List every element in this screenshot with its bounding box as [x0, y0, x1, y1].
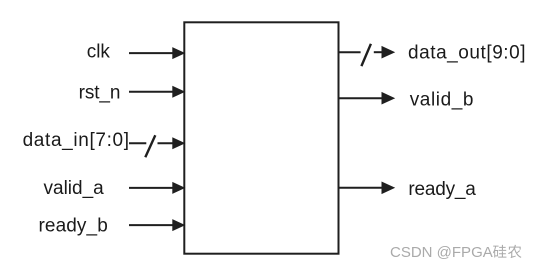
- wire ready_a (output arrow): [339, 182, 396, 195]
- label clk: [87, 41, 111, 62]
- label rst_n: [79, 82, 121, 103]
- module block: [184, 22, 338, 253]
- wire valid_a (input arrow): [129, 182, 185, 194]
- wire data_in bus (input arrow): [129, 137, 185, 149]
- wire rst_n (input arrow): [129, 86, 185, 98]
- svg-text:rst_n: rst_n: [79, 82, 121, 103]
- label data_in[7:0]: [23, 130, 130, 151]
- label ready_a: [408, 179, 476, 200]
- wire valid_b (output arrow): [339, 92, 396, 105]
- wire clk (input arrow): [129, 47, 185, 59]
- svg-text:clk: clk: [87, 41, 111, 62]
- bus slash data_out: [361, 44, 371, 66]
- wire ready_b (input arrow): [129, 219, 185, 231]
- label valid_b: [410, 90, 474, 111]
- svg-text:valid_b: valid_b: [410, 90, 474, 111]
- wire data_out bus (output arrow): [339, 46, 396, 59]
- svg-text:ready_b: ready_b: [39, 216, 108, 237]
- svg-text:valid_a: valid_a: [44, 178, 105, 199]
- label data_out[9:0]: [408, 43, 526, 64]
- watermark CSDN @FPGA硅农: [390, 244, 521, 261]
- svg-text:data_out[9:0]: data_out[9:0]: [408, 43, 526, 64]
- svg-text:data_in[7:0]: data_in[7:0]: [23, 130, 130, 151]
- svg-text:ready_a: ready_a: [408, 179, 476, 200]
- label ready_b: [39, 216, 108, 237]
- label valid_a: [44, 178, 105, 199]
- svg-text:CSDN @FPGA: CSDN @FPGA: [390, 244, 493, 261]
- bus slash data_in: [145, 135, 155, 157]
